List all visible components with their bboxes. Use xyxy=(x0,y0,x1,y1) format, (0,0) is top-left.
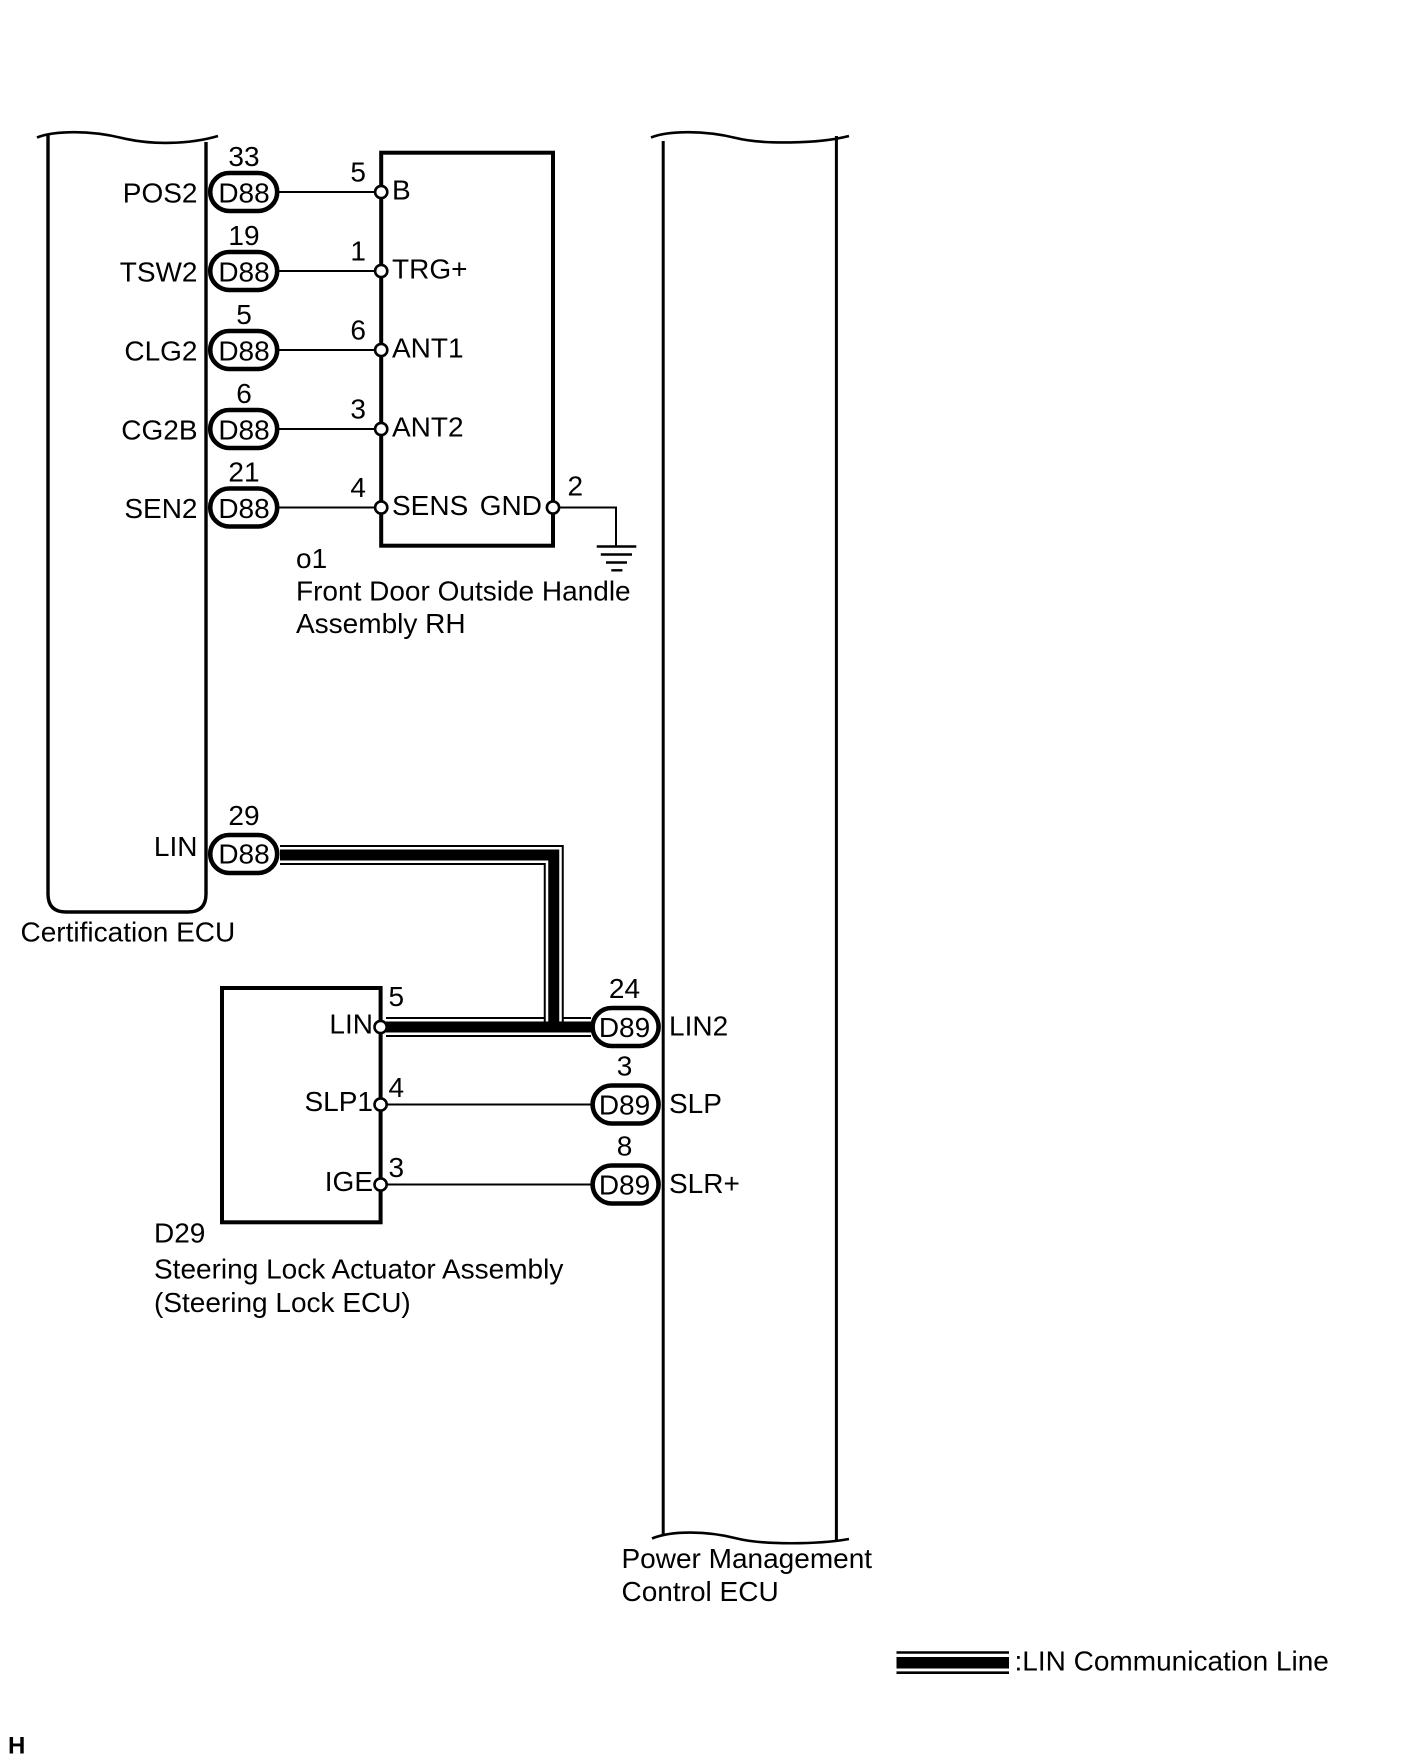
svg-text:SENS: SENS xyxy=(392,490,468,521)
svg-text:D88: D88 xyxy=(218,257,269,288)
svg-text:6: 6 xyxy=(350,314,366,345)
svg-text:21: 21 xyxy=(228,457,259,488)
svg-text:Steering Lock Actuator Assembl: Steering Lock Actuator Assembly xyxy=(154,1254,563,1285)
svg-text:3: 3 xyxy=(389,1152,405,1183)
svg-text:IGE: IGE xyxy=(325,1166,373,1197)
svg-text:D88: D88 xyxy=(218,336,269,367)
svg-text:19: 19 xyxy=(228,220,259,251)
svg-text:6: 6 xyxy=(236,378,252,409)
svg-text:TRG+: TRG+ xyxy=(392,254,467,285)
svg-text:4: 4 xyxy=(389,1072,405,1103)
svg-text:LIN2: LIN2 xyxy=(669,1011,728,1042)
svg-text:ANT2: ANT2 xyxy=(392,412,464,443)
svg-text:LIN: LIN xyxy=(329,1009,373,1040)
svg-text:GND: GND xyxy=(480,490,542,521)
svg-text:5: 5 xyxy=(389,981,405,1012)
svg-text:D88: D88 xyxy=(218,415,269,446)
svg-text:SEN2: SEN2 xyxy=(124,493,197,524)
svg-text:Assembly RH: Assembly RH xyxy=(296,608,466,639)
svg-text:D88: D88 xyxy=(218,178,269,209)
svg-text:8: 8 xyxy=(617,1131,633,1162)
svg-text:Power Management: Power Management xyxy=(622,1543,873,1574)
svg-text:Certification ECU: Certification ECU xyxy=(21,917,236,948)
svg-text:33: 33 xyxy=(228,141,259,172)
svg-text:H: H xyxy=(8,1733,25,1760)
svg-text:o1: o1 xyxy=(296,543,327,574)
svg-text:CG2B: CG2B xyxy=(121,415,197,446)
svg-text:D89: D89 xyxy=(599,1012,650,1043)
svg-text:3: 3 xyxy=(617,1051,633,1082)
svg-text:CLG2: CLG2 xyxy=(124,336,197,367)
svg-text:ANT1: ANT1 xyxy=(392,333,464,364)
svg-text:(Steering Lock ECU): (Steering Lock ECU) xyxy=(154,1287,411,1318)
svg-text:4: 4 xyxy=(350,472,366,503)
svg-text:SLP: SLP xyxy=(669,1088,722,1119)
svg-text:29: 29 xyxy=(228,800,259,831)
svg-text:D89: D89 xyxy=(599,1090,650,1121)
svg-text:LIN: LIN xyxy=(154,831,198,862)
svg-text:1: 1 xyxy=(350,235,366,266)
svg-text:D88: D88 xyxy=(218,839,269,870)
svg-text::LIN Communication Line: :LIN Communication Line xyxy=(1015,1645,1329,1676)
svg-text:24: 24 xyxy=(609,973,640,1004)
svg-text:5: 5 xyxy=(236,299,252,330)
svg-text:Front Door Outside Handle: Front Door Outside Handle xyxy=(296,576,631,607)
svg-text:Control ECU: Control ECU xyxy=(622,1576,779,1607)
svg-text:D89: D89 xyxy=(599,1170,650,1201)
svg-text:TSW2: TSW2 xyxy=(120,257,198,288)
svg-text:3: 3 xyxy=(350,393,366,424)
svg-text:D88: D88 xyxy=(218,493,269,524)
svg-text:POS2: POS2 xyxy=(123,178,198,209)
svg-text:B: B xyxy=(392,175,411,206)
svg-text:5: 5 xyxy=(350,156,366,187)
svg-text:2: 2 xyxy=(568,471,584,502)
svg-text:D29: D29 xyxy=(154,1218,205,1249)
svg-text:SLP1: SLP1 xyxy=(305,1086,374,1117)
svg-text:SLR+: SLR+ xyxy=(669,1168,740,1199)
